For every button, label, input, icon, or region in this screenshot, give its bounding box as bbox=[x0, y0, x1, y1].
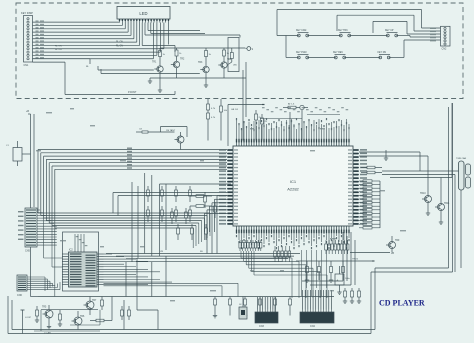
capacitor C11 bbox=[229, 297, 232, 316]
svg-text:P.CONT: P.CONT bbox=[128, 92, 137, 94]
transistor Q11 bbox=[435, 198, 450, 224]
capacitor C51 bbox=[350, 288, 354, 303]
wire filter bus bbox=[106, 251, 300, 261]
transistor Q6 bbox=[72, 311, 86, 330]
transistor Q1 bbox=[152, 62, 163, 73]
LED display DS1 bbox=[117, 7, 170, 23]
capacitor C44 bbox=[335, 266, 351, 294]
svg-text:KEY UP: KEY UP bbox=[385, 30, 394, 32]
svg-text:CD PLAYER: CD PLAYER bbox=[379, 299, 425, 308]
capacitor C52 bbox=[357, 288, 361, 303]
connector CN5 ribbon bbox=[18, 208, 37, 253]
resistor R11 bbox=[90, 319, 112, 322]
wire fan CN1 to LED display bbox=[33, 20, 164, 68]
svg-text:KEY DN: KEY DN bbox=[378, 52, 387, 54]
IC1 right pins bbox=[348, 149, 367, 225]
wire Q3 emitter bbox=[204, 73, 208, 88]
switch SW6 bbox=[378, 52, 391, 59]
connector CN2 bbox=[430, 26, 450, 50]
resistor R3 bbox=[159, 48, 166, 66]
capacitor C10 bbox=[213, 297, 217, 318]
resistor R14 bbox=[121, 306, 124, 320]
resistor R15 bbox=[128, 306, 131, 320]
svg-text:100u: 100u bbox=[345, 278, 351, 280]
switch SW3 bbox=[385, 30, 398, 37]
wire key rail 2 bbox=[337, 15, 441, 31]
svg-text:IC1: IC1 bbox=[290, 179, 297, 184]
resistor ladder RL1 bbox=[359, 180, 380, 229]
connector CN1 bbox=[21, 11, 33, 67]
svg-text:VR: VR bbox=[160, 251, 163, 253]
switch SW5 bbox=[333, 52, 346, 59]
svg-text:TR9: TR9 bbox=[395, 240, 400, 242]
svg-text:CN3: CN3 bbox=[259, 325, 264, 328]
wire bus IC1 to filter section bbox=[38, 148, 227, 297]
svg-text:CN4: CN4 bbox=[310, 325, 315, 328]
resistor R13 bbox=[101, 297, 104, 311]
resistor network RN1 bbox=[177, 224, 208, 240]
svg-text:TR1: TR1 bbox=[152, 62, 157, 64]
filter section box bbox=[160, 184, 232, 256]
svg-text:LOOP: LOOP bbox=[25, 317, 32, 319]
wire emitter rail bbox=[148, 78, 246, 83]
resistor R21 bbox=[220, 99, 228, 141]
wires motor leads bbox=[359, 103, 461, 272]
capacitor C14 bbox=[273, 297, 277, 318]
transistor Q2 bbox=[171, 59, 185, 68]
transistor Q3 bbox=[198, 62, 209, 73]
resistor R51 bbox=[361, 171, 382, 174]
capacitor C33 bbox=[189, 206, 192, 222]
capacitor C35 bbox=[190, 195, 212, 208]
wire key rail 3 bbox=[373, 21, 441, 34]
op-amp IC2 bbox=[62, 249, 104, 288]
svg-text:V CAR: V CAR bbox=[44, 332, 51, 335]
capacitor array CA3 bbox=[325, 240, 349, 254]
resistor R23 bbox=[261, 114, 268, 141]
svg-text:GB 1/4: GB 1/4 bbox=[231, 109, 239, 111]
wire servo outputs bbox=[112, 297, 158, 330]
svg-text:CN2: CN2 bbox=[442, 48, 447, 51]
display board dashed border bbox=[16, 3, 463, 99]
terminal S1 bbox=[245, 47, 254, 51]
resistor array RA2 bbox=[274, 246, 291, 262]
wires CN5 bbox=[37, 210, 57, 245]
transistor Q8 bbox=[136, 127, 187, 150]
resistor R30 bbox=[147, 186, 150, 202]
IC1 top pin labels bbox=[236, 107, 350, 131]
transistor Q10 bbox=[420, 190, 432, 215]
svg-text:+B: +B bbox=[26, 110, 29, 113]
svg-text:+B: +B bbox=[391, 252, 394, 255]
switch SW2 bbox=[338, 30, 351, 37]
wire loop stub bbox=[21, 310, 32, 334]
resistor R32 bbox=[175, 186, 178, 202]
connector CN6 bbox=[17, 275, 27, 297]
svg-text:TR 06: TR 06 bbox=[352, 259, 359, 261]
resistor R31 bbox=[161, 186, 164, 202]
wire bias rail bbox=[160, 47, 245, 49]
motor M2 bbox=[466, 164, 471, 188]
capacitor C41 bbox=[318, 261, 321, 280]
wire Q1 emitter bbox=[158, 72, 162, 92]
svg-text:KEY CAM: KEY CAM bbox=[296, 29, 306, 32]
filter block FB1 outline bbox=[63, 232, 99, 291]
svg-text:TR7: TR7 bbox=[92, 300, 97, 302]
switch SW4 bbox=[296, 52, 309, 59]
capacitor C30 bbox=[147, 206, 150, 222]
svg-text:KEY DISP: KEY DISP bbox=[21, 11, 33, 15]
wires IC2 right bbox=[104, 254, 239, 297]
svg-text:TR3: TR3 bbox=[198, 62, 203, 64]
svg-text:AT 1.6: AT 1.6 bbox=[288, 103, 295, 106]
wire bus CA1 outputs bbox=[241, 251, 327, 298]
ground G1 bbox=[384, 150, 388, 160]
jack J1 bbox=[239, 297, 247, 320]
svg-text:CN6: CN6 bbox=[17, 294, 22, 297]
resistor R12 bbox=[35, 306, 39, 322]
svg-text:CN1: CN1 bbox=[24, 64, 29, 67]
resistor R4 bbox=[175, 48, 182, 61]
svg-text:TR10: TR10 bbox=[420, 193, 426, 195]
capacitor C12 bbox=[243, 297, 247, 318]
svg-text:LED: LED bbox=[139, 11, 147, 16]
wire key rail 1 bbox=[277, 10, 441, 36]
capacitor C32 bbox=[175, 206, 178, 222]
switch SW1 bbox=[296, 29, 309, 37]
wire Q1 base feed bbox=[98, 66, 154, 70]
connector CN4 bbox=[300, 290, 334, 328]
svg-text:LED: LED bbox=[233, 65, 238, 67]
IC IC1 A2282 body bbox=[233, 146, 353, 226]
connector CN3 bbox=[255, 297, 278, 328]
svg-text:+: + bbox=[337, 279, 339, 283]
IC1 bottom pin wires bbox=[236, 232, 350, 297]
wire +B supply bbox=[26, 110, 34, 297]
svg-text:KEY PGM: KEY PGM bbox=[296, 52, 307, 54]
capacitor C42 bbox=[329, 261, 333, 282]
capacitor C31 bbox=[161, 206, 164, 222]
svg-text:RL ON: RL ON bbox=[116, 46, 123, 48]
wire key row 2 bbox=[286, 36, 441, 58]
svg-text:TR2: TR2 bbox=[180, 59, 185, 61]
wire vcc arrow bbox=[228, 105, 265, 147]
power indicator box bbox=[228, 38, 239, 72]
transistor Q5 bbox=[42, 305, 53, 329]
transistor Q7 bbox=[84, 297, 98, 316]
main board outline bbox=[8, 103, 453, 334]
resistor R35 bbox=[185, 208, 188, 224]
wire aux cross bbox=[243, 62, 246, 141]
wire filter verticals bbox=[126, 173, 166, 297]
svg-text:TR6: TR6 bbox=[80, 316, 85, 318]
capacitor C43 bbox=[342, 261, 345, 280]
resistor R10 bbox=[58, 310, 62, 326]
svg-text:KEY TRK: KEY TRK bbox=[338, 30, 348, 32]
CD PLAYER title bbox=[379, 299, 425, 308]
wire output runs bbox=[302, 232, 355, 285]
IC1 top pins bbox=[236, 139, 350, 146]
wire Q3 base feed bbox=[101, 69, 200, 74]
wire vcc spur bbox=[350, 252, 394, 255]
annotation specks bbox=[36, 108, 406, 301]
transistor Q4 bbox=[218, 59, 232, 68]
wire key row 1 bbox=[277, 36, 441, 38]
transistor Q9 bbox=[386, 236, 400, 253]
capacitor C13 bbox=[259, 297, 262, 316]
motor M1 bbox=[456, 157, 467, 190]
wire servo rail bbox=[31, 296, 335, 298]
capacitor array CA1 bbox=[239, 240, 262, 251]
wire ground bracket bbox=[33, 62, 176, 94]
svg-text:RL ON: RL ON bbox=[116, 42, 123, 44]
svg-text:A2282: A2282 bbox=[287, 187, 299, 192]
IC1 top pin wires bbox=[237, 115, 350, 141]
wire Q4 emitter bbox=[223, 68, 225, 78]
wires IC1 left to filter grid bbox=[205, 196, 228, 254]
resistor R33 bbox=[189, 186, 192, 202]
capacitor C1 bbox=[6, 141, 31, 166]
svg-text:TWR CAR: TWR CAR bbox=[456, 157, 467, 160]
svg-text:RL ON: RL ON bbox=[55, 49, 62, 51]
wire servo mesh bbox=[34, 310, 100, 335]
IC1 bottom pins bbox=[236, 226, 350, 233]
crystal X1 bbox=[283, 103, 308, 141]
wires CN6 bbox=[27, 277, 60, 291]
capacitor C50 bbox=[343, 288, 347, 303]
resistor R20 chain bbox=[207, 99, 217, 141]
svg-text:TR11: TR11 bbox=[444, 203, 450, 205]
resistor R22 bbox=[255, 110, 262, 141]
svg-text:CN5: CN5 bbox=[25, 250, 30, 253]
capacitor C40 bbox=[305, 261, 309, 282]
IC1 left pins bbox=[219, 149, 238, 225]
resistor R5 bbox=[205, 48, 212, 66]
svg-text:TR4: TR4 bbox=[227, 59, 232, 61]
svg-text:TR5: TR5 bbox=[42, 307, 47, 309]
resistor R50 bbox=[361, 166, 382, 169]
resistor R34 bbox=[171, 208, 174, 224]
wire mute rail bbox=[296, 259, 375, 262]
wire Q2 emitter bbox=[176, 68, 178, 78]
wires LED display pins bbox=[142, 23, 240, 53]
resistor R6 bbox=[223, 48, 230, 62]
resistor R36 bbox=[204, 192, 207, 208]
resistor R37 bbox=[214, 202, 217, 218]
svg-text:KEY REV: KEY REV bbox=[333, 52, 343, 54]
capacitor C15 bbox=[289, 297, 292, 316]
svg-text:RL ON: RL ON bbox=[55, 46, 62, 48]
svg-text:1M TANT: 1M TANT bbox=[166, 129, 176, 132]
svg-text:IC2: IC2 bbox=[69, 249, 73, 252]
